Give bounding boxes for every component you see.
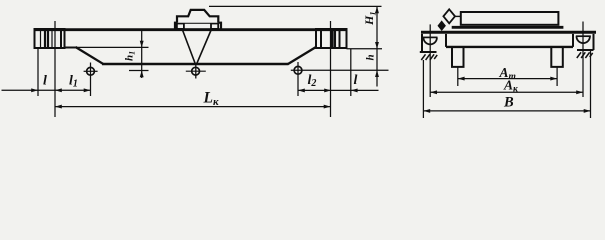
trolley right wheel bbox=[211, 24, 218, 29]
h dimension arrow bbox=[375, 70, 379, 77]
bridge deck bottom line bbox=[446, 46, 573, 48]
h1 dimension line bbox=[65, 31, 149, 78]
girder bottom edge with end tapers bbox=[65, 47, 317, 64]
svg-text:Lк: Lк bbox=[203, 90, 219, 109]
svg-text:Aк: Aк bbox=[503, 78, 519, 95]
drive unit diamond bbox=[443, 9, 455, 23]
l2 and l dimension line (right) bbox=[298, 49, 379, 96]
hoist rope right bbox=[197, 31, 211, 64]
hook circle bbox=[192, 67, 200, 75]
trolley body silhouette bbox=[177, 10, 218, 23]
left crane wheel centerline bbox=[54, 21, 56, 117]
svg-text:l2: l2 bbox=[308, 73, 317, 89]
trolley base frame bbox=[175, 23, 221, 30]
right crane wheel centerline bbox=[330, 21, 332, 117]
svg-text:l: l bbox=[43, 74, 47, 89]
machinery house box bbox=[461, 12, 559, 25]
At dimension line bbox=[458, 67, 557, 86]
B dimension line bbox=[423, 109, 590, 113]
l and l1 dimension line bbox=[2, 49, 91, 96]
svg-text:h: h bbox=[365, 54, 377, 60]
hoist rope left bbox=[183, 31, 196, 64]
H1 top extension line from trolley top bbox=[209, 5, 382, 7]
right hook approach mark bbox=[294, 62, 302, 96]
H1 dimension line bbox=[347, 6, 383, 86]
machinery plinth strip bbox=[452, 26, 564, 29]
svg-text:l1: l1 bbox=[69, 74, 78, 90]
right runway wheel assembly bbox=[573, 22, 594, 119]
right trolley rail leg bbox=[551, 47, 563, 67]
bridge deck top band bbox=[421, 31, 596, 34]
trolley left wheel bbox=[177, 24, 184, 29]
drive link line bbox=[455, 15, 461, 17]
right end truck block bbox=[316, 29, 347, 48]
svg-text:l: l bbox=[354, 73, 358, 88]
svg-text:H1: H1 bbox=[362, 11, 378, 26]
drive unit small diamond bbox=[439, 22, 445, 30]
left runway wheel assembly bbox=[420, 24, 446, 118]
h lower extension line through right mark bbox=[291, 69, 389, 71]
Ak dimension line bbox=[430, 90, 583, 94]
hook hanger line bbox=[195, 64, 197, 79]
svg-text:В: В bbox=[503, 95, 514, 111]
hook cross arm bbox=[186, 70, 206, 72]
left trolley rail leg bbox=[452, 47, 464, 67]
svg-text:h1: h1 bbox=[124, 51, 137, 61]
Lk span dimension line bbox=[55, 105, 331, 109]
left hook approach mark bbox=[84, 63, 98, 97]
left end truck block bbox=[35, 29, 65, 48]
girder top chord (side view) bbox=[35, 28, 347, 31]
